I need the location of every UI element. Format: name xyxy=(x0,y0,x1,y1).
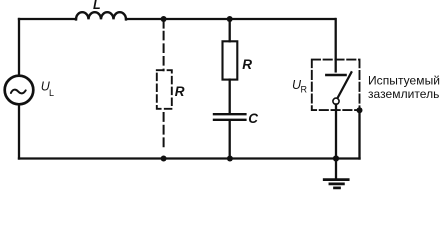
wire RC middle xyxy=(229,80,231,113)
svg-text:L: L xyxy=(49,88,54,98)
switch arm xyxy=(337,72,351,98)
node top junction RC branch xyxy=(227,16,233,22)
wire RC lower xyxy=(229,121,231,159)
ac source U_L xyxy=(5,76,34,105)
resistor R xyxy=(223,41,238,79)
wire right vertical from top xyxy=(335,19,337,71)
svg-text:R: R xyxy=(175,84,185,99)
ground xyxy=(324,178,348,181)
resistor R (dashed) xyxy=(157,70,172,109)
wire RC branch upper xyxy=(229,19,231,41)
wire ground stem xyxy=(335,159,337,179)
wire left vertical upper xyxy=(18,19,20,76)
wire dashed branch upper xyxy=(163,19,165,28)
wire right bottom vertical xyxy=(358,110,360,158)
wire bottom horizontal xyxy=(19,157,360,159)
earth electrode enclosure (dashed box) xyxy=(312,60,360,111)
node bottom junction dashed branch xyxy=(161,156,167,162)
node top junction dashed branch xyxy=(161,16,167,22)
switch pivot circle xyxy=(333,98,339,104)
wire left vertical lower xyxy=(18,104,20,158)
node bottom junction RC branch xyxy=(227,156,233,162)
capacitor C xyxy=(214,113,245,115)
svg-text:заземлитель: заземлитель xyxy=(368,87,439,101)
svg-text:R: R xyxy=(301,85,308,95)
svg-text:R: R xyxy=(242,57,252,72)
node box corner junction xyxy=(357,107,363,113)
wire switch lower xyxy=(335,104,337,158)
wire dashed branch lower xyxy=(163,113,165,147)
wire top horizontal xyxy=(19,18,335,20)
svg-text:C: C xyxy=(248,111,258,126)
svg-text:Испытуемый: Испытуемый xyxy=(368,73,440,87)
switch fixed contact bar xyxy=(326,74,345,76)
inductor L xyxy=(76,12,126,19)
node bottom junction switch branch xyxy=(333,155,339,161)
svg-text:L: L xyxy=(93,0,101,12)
